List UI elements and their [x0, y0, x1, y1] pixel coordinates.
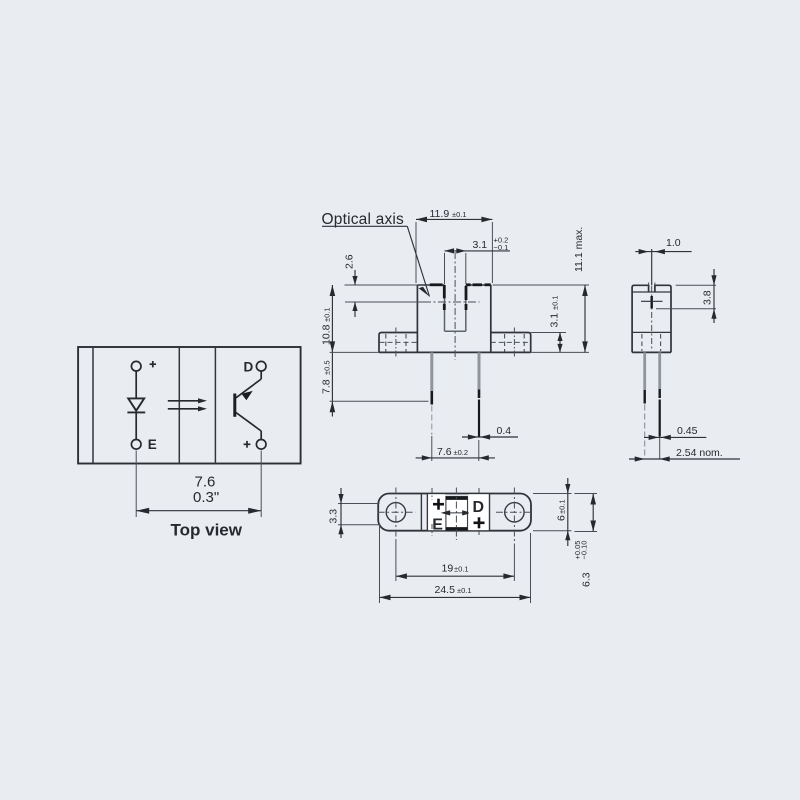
- svg-text:7.8: 7.8: [321, 379, 333, 394]
- dimension 11.1 max line: [582, 285, 588, 352]
- bottom slot thick bars: [446, 498, 468, 529]
- svg-text:Top view: Top view: [171, 521, 243, 540]
- dimension 1.0 line: [635, 249, 691, 254]
- svg-text:±0.1: ±0.1: [551, 295, 560, 310]
- dimension 19 line: [396, 573, 515, 579]
- svg-text:±0.1: ±0.1: [452, 210, 467, 219]
- svg-text:3.1: 3.1: [549, 313, 561, 328]
- dimension 3.1 wing line: [557, 333, 562, 353]
- svg-text:11.1 max.: 11.1 max.: [573, 227, 585, 272]
- dimension 7.6 front ext lines: [432, 436, 479, 461]
- svg-text:±0.5: ±0.5: [323, 360, 332, 375]
- svg-text:2.6: 2.6: [344, 254, 356, 269]
- svg-text:24.5: 24.5: [435, 584, 456, 596]
- dimension 10.8 bottom extension: [330, 351, 379, 353]
- dimension 7.6 front line: [416, 455, 495, 460]
- dimension 6 line: [565, 478, 570, 546]
- svg-text:0.3": 0.3": [193, 489, 219, 506]
- svg-text:−0.10: −0.10: [580, 541, 589, 560]
- side seam line: [632, 291, 671, 293]
- detector collector terminal circle: [256, 361, 266, 371]
- dimension 11.9 line: [416, 217, 492, 223]
- emitter plus label: [244, 441, 251, 448]
- svg-text:±0.2: ±0.2: [454, 448, 469, 457]
- front slot walls: [445, 285, 466, 331]
- front center line: [454, 252, 456, 360]
- front left wing: [379, 333, 417, 353]
- top view inner left line: [92, 347, 94, 464]
- top view outer box: [78, 347, 301, 464]
- right wing mid dash line: [491, 341, 530, 343]
- svg-text:0.45: 0.45: [677, 425, 698, 437]
- dimension 11.9 extension lines: [416, 222, 492, 283]
- light arrows: [168, 398, 207, 411]
- side optical axis thick mark: [651, 296, 653, 309]
- bottom slot arrows: [441, 510, 472, 515]
- left mounting hole: [386, 503, 405, 522]
- svg-text:7.6: 7.6: [195, 474, 216, 491]
- dimension 10.8 line: [330, 285, 336, 352]
- svg-text:0.4: 0.4: [497, 425, 512, 437]
- dimension 0.45 line: [644, 435, 706, 440]
- dimension 3.1 slot line: [445, 248, 511, 253]
- top view divider 1: [178, 347, 180, 464]
- dimension 3.3 line: [338, 488, 343, 538]
- svg-text:±0.1: ±0.1: [558, 499, 567, 514]
- plus label at anode: [150, 361, 156, 367]
- svg-text:Optical axis: Optical axis: [322, 211, 405, 228]
- dimension 7.6 0.3" extension lines: [136, 451, 261, 518]
- dimension 2.6: [352, 270, 357, 317]
- dimension 7.6 0.3" line with arrows: [136, 508, 261, 514]
- svg-text:3.8: 3.8: [702, 290, 714, 305]
- svg-text:3.3: 3.3: [328, 509, 340, 524]
- bottom body lines left: [421, 494, 427, 531]
- left wing mid dash line: [380, 341, 418, 343]
- LED vertical wire: [135, 371, 137, 440]
- svg-text:6.3: 6.3: [581, 572, 593, 587]
- svg-text:19: 19: [442, 563, 454, 575]
- detector emitter terminal circle: [256, 440, 266, 450]
- svg-text:7.6: 7.6: [437, 446, 452, 458]
- slot wall thick marks right: [465, 286, 468, 310]
- dimension 3.1 wing extension line: [531, 332, 566, 334]
- left wing hole centerline: [395, 328, 397, 359]
- dimension 3.1 slot extension lines: [445, 253, 466, 284]
- svg-text:E: E: [148, 437, 157, 452]
- side base seam: [632, 331, 671, 333]
- bottom slot centerline vertical: [455, 488, 457, 541]
- side body outline: [632, 285, 671, 352]
- bottom body line right: [489, 494, 491, 531]
- lead center marks: [432, 488, 479, 536]
- dimension 1.0 ext lines: [649, 283, 655, 286]
- front body top edge: [417, 284, 490, 286]
- phototransistor arrow: [242, 391, 253, 400]
- side right lead: [658, 352, 661, 459]
- dimension 24.5 line: [380, 595, 531, 601]
- side center line: [651, 249, 653, 285]
- optical axis line: [345, 301, 423, 303]
- left wing hidden hole dashes: [386, 334, 406, 352]
- svg-text:−0.1: −0.1: [494, 243, 509, 252]
- svg-text:D: D: [244, 360, 254, 375]
- dimension 7.8 line: [330, 352, 336, 416]
- svg-text:±0.1: ±0.1: [457, 586, 472, 595]
- svg-text:D: D: [473, 499, 485, 516]
- right label panel: [469, 494, 490, 530]
- dimension 6.3 line: [590, 494, 596, 532]
- svg-text:2.54 nom.: 2.54 nom.: [676, 447, 723, 459]
- optical axis leader line: [322, 226, 430, 296]
- dimension 6.3 ext lines: [574, 494, 597, 532]
- dimension 7.8 extension line: [330, 400, 429, 402]
- right mounting hole: [505, 503, 524, 522]
- dimension 3.3 ext lines: [338, 504, 380, 525]
- front right wing: [491, 333, 531, 353]
- slot wall thick marks left: [443, 285, 446, 310]
- label plus bottom right: [474, 517, 485, 528]
- side base hidden lead dashes: [642, 334, 661, 351]
- LED cathode terminal circle: [131, 440, 141, 450]
- LED anode terminal circle: [131, 361, 141, 371]
- bottom slot rect: [446, 497, 468, 531]
- bottom tab outline: [378, 494, 531, 531]
- svg-text:6: 6: [556, 515, 568, 521]
- left label panel: [428, 494, 445, 530]
- svg-text:1.0: 1.0: [666, 237, 681, 249]
- front body left edge: [416, 285, 418, 352]
- right hole cross: [496, 488, 533, 546]
- dimension 24.5 ext lines: [380, 524, 531, 603]
- dimension 0.4 line: [462, 434, 518, 439]
- dimension 11.1 max extension lines: [493, 285, 590, 352]
- right wing hidden hole dashes: [505, 334, 525, 352]
- label plus top left: [433, 499, 444, 510]
- svg-text:10.8: 10.8: [321, 324, 333, 345]
- phototransistor Q1: [236, 371, 261, 440]
- dimension 3.8 line: [711, 269, 716, 323]
- right wing hole centerline: [513, 328, 515, 359]
- dimension 6 ext lines: [533, 494, 572, 531]
- dimension 2.54 line: [629, 456, 740, 461]
- side bottom edge: [632, 351, 671, 353]
- svg-text:11.9: 11.9: [430, 208, 450, 220]
- front right lead: [478, 352, 481, 437]
- side left lead: [643, 352, 646, 459]
- front bottom edge: [379, 351, 531, 353]
- side optical axis cross: [641, 300, 663, 302]
- front top edge thick marks: [430, 283, 491, 286]
- svg-text:3.1: 3.1: [473, 239, 488, 251]
- dimension 19 ext lines: [396, 541, 515, 581]
- left hole cross: [378, 488, 416, 542]
- svg-text:±0.1: ±0.1: [454, 565, 469, 574]
- LED diode symbol D1: [127, 398, 145, 412]
- dimension 3.8 ext lines: [656, 285, 716, 309]
- phototransistor base bar: [233, 394, 236, 417]
- front left lead: [430, 352, 433, 435]
- front body right edge: [490, 285, 492, 352]
- top view divider 2: [214, 347, 216, 464]
- svg-text:±0.1: ±0.1: [323, 307, 332, 322]
- svg-text:E: E: [432, 517, 443, 534]
- dimension 2.6 extension line top: [345, 284, 418, 286]
